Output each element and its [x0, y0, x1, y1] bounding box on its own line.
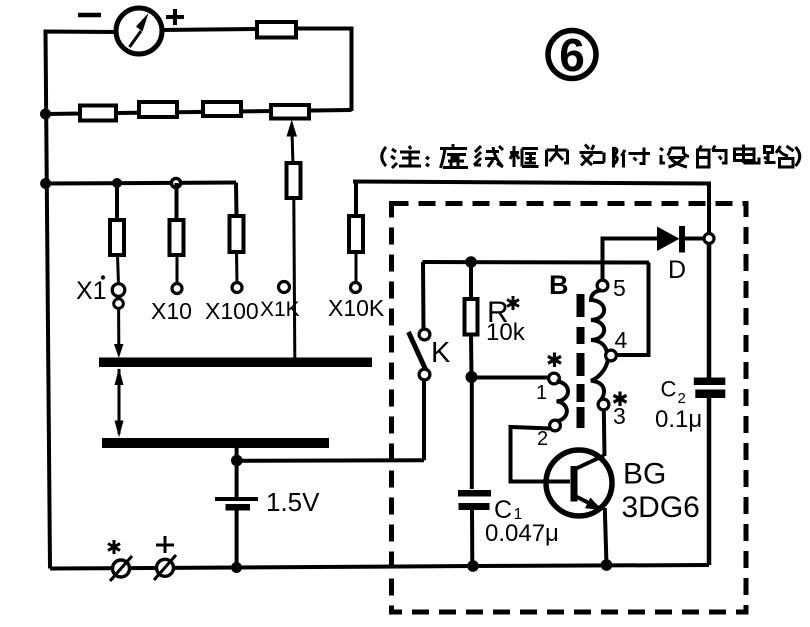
)	[796, 147, 800, 166]
xian	[474, 146, 503, 167]
wire wiper to wafer1	[294, 198, 295, 358]
node battery top	[231, 455, 243, 467]
svg-text:X100: X100	[205, 298, 259, 324]
potentiometer wiper arrow	[287, 120, 298, 166]
wire top rail to switch	[421, 262, 426, 330]
wire shunt row	[46, 110, 352, 114]
node C1 bottom	[467, 560, 479, 572]
X10 branch	[170, 183, 184, 294]
circled 6 figure number	[548, 29, 596, 81]
wire R-top to right corner down	[295, 29, 352, 112]
nei	[547, 145, 568, 167]
capacitor C2	[694, 378, 726, 566]
node range rail left	[40, 178, 51, 189]
wire R node down to C1	[470, 377, 474, 489]
dian	[735, 145, 760, 164]
X1K terminal	[279, 282, 290, 293]
wire wafer2 to battery	[235, 447, 239, 498]
terminal common	[110, 556, 132, 581]
wire pin3 to collector	[602, 410, 607, 457]
wire battery node to switch K	[237, 458, 424, 463]
secondary coil lower	[591, 360, 608, 400]
wire pin5 up to diode	[603, 239, 659, 281]
note text (annotation in Chinese, drawn strokes)	[382, 144, 800, 168]
transformer B primary winding pin1	[549, 373, 560, 384]
wire meter to R-top	[161, 29, 258, 30]
resistor shunt 3	[203, 102, 241, 116]
svg-text:6: 6	[559, 29, 585, 81]
node X10 top	[171, 178, 180, 187]
svg-text:4: 4	[615, 327, 628, 353]
label star pin3	[614, 392, 627, 407]
svg-text:2: 2	[537, 428, 548, 450]
X1 branch: wire, resistor, terminals, arrow	[110, 183, 125, 358]
node external tap	[704, 234, 714, 244]
svg-text:1.5V: 1.5V	[266, 487, 320, 517]
svg-text:3DG6: 3DG6	[622, 491, 700, 524]
switch K	[409, 329, 430, 460]
pin2	[550, 420, 561, 431]
svg-text:C: C	[661, 377, 677, 402]
de	[698, 146, 727, 168]
switch wafer bar 2	[102, 438, 329, 448]
node R bottom	[466, 371, 478, 383]
xu	[440, 144, 468, 168]
svg-text:0.1μ: 0.1μ	[655, 406, 702, 433]
resistor wiper series	[287, 163, 301, 198]
wire emitter down	[605, 508, 607, 565]
svg-text:5: 5	[613, 275, 626, 301]
svg-text:X1K: X1K	[260, 298, 300, 321]
svg-text:3: 3	[613, 403, 626, 429]
wire oscillator top rail	[423, 260, 650, 265]
resistor top	[257, 22, 296, 38]
zhu	[391, 149, 397, 168]
wire node to C2	[707, 243, 712, 379]
node left rail row2	[40, 109, 51, 120]
node R top	[465, 256, 477, 268]
(	[382, 147, 386, 166]
svg-text:D: D	[668, 256, 686, 284]
svg-text:2: 2	[678, 390, 686, 407]
wire pin2 to base	[511, 427, 552, 482]
meter plus label	[166, 9, 184, 25]
capacitor C1	[458, 490, 491, 566]
terminal plus	[154, 555, 176, 580]
node emitter bottom	[601, 559, 613, 571]
resistor shunt 1	[80, 106, 116, 121]
svg-text:10k: 10k	[486, 319, 526, 346]
dashed enclosure box	[392, 204, 747, 613]
wire R node to winding pin1	[472, 376, 551, 380]
svg-text:X10K: X10K	[328, 295, 385, 321]
wire top left	[46, 32, 117, 569]
battery B1 1.5V	[215, 499, 258, 568]
wafer link arrows	[115, 368, 124, 438]
transformer secondary pin5	[597, 280, 608, 291]
meter M1	[116, 8, 162, 54]
svg-text:K: K	[431, 337, 451, 369]
wire bottom rail	[50, 565, 709, 569]
svg-text:BG: BG	[623, 458, 666, 491]
label star pin1	[548, 353, 561, 368]
label star common	[108, 540, 120, 554]
X100 branch	[230, 183, 244, 293]
diode D	[657, 226, 705, 253]
resistor shunt 2	[139, 102, 177, 117]
svg-text:B: B	[549, 270, 569, 300]
secondary coil upper	[591, 290, 607, 352]
meter minus label	[78, 13, 101, 18]
pin4	[606, 350, 617, 361]
fu	[614, 147, 651, 168]
she	[660, 148, 689, 167]
svg-text:0.047μ: 0.047μ	[485, 520, 559, 547]
switch wafer bar 1	[99, 358, 372, 368]
svg-text:X1: X1	[76, 277, 107, 305]
resistor R* 10k	[465, 262, 478, 377]
X10K branch	[349, 182, 363, 293]
primary coil	[557, 382, 569, 422]
lu	[764, 146, 794, 167]
pin3	[598, 399, 609, 410]
transistor BG 3DG6	[546, 450, 612, 516]
label plus terminal	[156, 536, 174, 553]
wei	[580, 145, 605, 166]
kuang	[510, 146, 539, 167]
transformer core	[577, 294, 585, 428]
svg-text:X10: X10	[151, 298, 192, 324]
svg-text:1: 1	[536, 382, 547, 404]
node X1 top	[112, 178, 122, 188]
potentiometer body	[271, 105, 309, 119]
colon	[426, 157, 429, 166]
wire pin4 to top rail	[616, 263, 649, 356]
wire range rail	[46, 183, 236, 184]
node battery bottom	[231, 562, 242, 573]
wire top rail to oscillator	[353, 182, 709, 236]
